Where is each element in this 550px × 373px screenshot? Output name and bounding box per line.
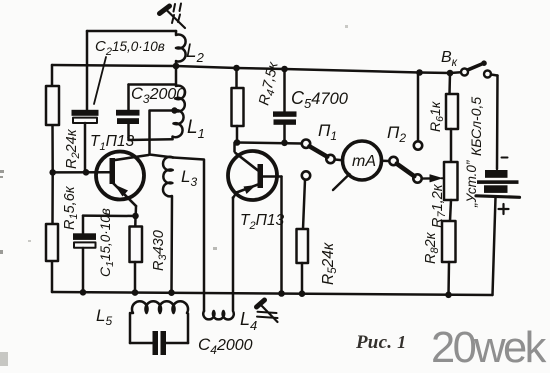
caption Ris. 1: [355, 332, 406, 353]
label P1: [318, 121, 337, 143]
L4 trimmer arrow: [257, 300, 278, 322]
transistor T2: [228, 143, 282, 200]
transistor T1: [96, 152, 149, 217]
inductor L5 and capacitor C4 tank: [130, 301, 188, 343]
label R5 24k: [320, 242, 339, 285]
label R6 1k: [427, 100, 446, 132]
capacitor C4: [153, 331, 167, 355]
svg-text:R224к: R224к: [64, 128, 82, 169]
label Ust.0: [464, 160, 479, 208]
wire P2 wiper arrow to R7: [422, 175, 444, 182]
wire C2-L2 loop top: [87, 31, 176, 110]
svg-text:R3430: R3430: [151, 230, 169, 271]
inductor L2: [176, 31, 186, 66]
svg-text:C54700: C54700: [291, 88, 349, 111]
label R8 2k: [423, 231, 441, 264]
meter mA: [333, 141, 382, 190]
wire T1 emitter line: [83, 214, 136, 217]
resistor R4: [232, 68, 244, 143]
node R2/R1 junction: [49, 169, 56, 176]
inductor L3: [163, 157, 173, 293]
battery KBS-0,5: [476, 76, 520, 296]
capacitor C3: [116, 110, 140, 124]
label L4: [240, 309, 257, 333]
switch P1: [302, 140, 343, 164]
switch P1 alternate terminal / R5 top: [302, 171, 310, 179]
wire bottom rail: [52, 292, 493, 295]
wire C2 bottom lead: [84, 123, 87, 172]
svg-text:„Уст.0”: „Уст.0”: [464, 160, 479, 208]
resistor R3: [130, 216, 143, 293]
label L3: [181, 167, 197, 189]
svg-text:20wek: 20wek: [431, 324, 547, 372]
node L2 on top rail: [173, 63, 180, 70]
antenna trimmer arrow: [160, 4, 186, 29]
label mA: [352, 153, 376, 170]
label C2 15,0x10v: [95, 38, 165, 58]
wire mid rail R4/C5/P1: [237, 143, 302, 144]
node R4 top: [233, 65, 240, 72]
resistor R7 potentiometer: [444, 162, 458, 221]
node R6 top: [447, 70, 454, 77]
wire T2 collector to bottom rail: [280, 177, 283, 294]
node C5 bottom: [281, 140, 288, 147]
scan artifacts: [0, 25, 348, 366]
resistor R5: [297, 180, 309, 294]
svg-text:R524к: R524к: [320, 242, 339, 285]
label R4 7,5k: [256, 60, 284, 108]
resistor R1: [46, 224, 58, 261]
watermark 20wek: [431, 324, 547, 372]
capacitor C5: [273, 69, 297, 143]
node T2 collector bottom: [278, 290, 285, 297]
svg-text:R82к: R82к: [423, 231, 441, 264]
wire top rail: [52, 65, 461, 73]
node C1 bottom: [80, 289, 87, 296]
label C4 2000: [198, 335, 253, 357]
node R8 bottom: [445, 292, 452, 299]
node P2 top: [416, 69, 423, 76]
label C5 4700: [291, 88, 349, 111]
wire L1 tap loop to L3: [150, 111, 175, 158]
svg-text:тА: тА: [352, 153, 376, 170]
label R1 5,6k: [62, 185, 80, 230]
label KBSl-0,5: [468, 97, 484, 156]
label L1: [187, 117, 205, 141]
node R4 bottom: [234, 139, 241, 146]
wire T1 base line: [53, 171, 110, 174]
svg-text:КБСл-0,5: КБСл-0,5: [468, 97, 484, 156]
svg-text:Рис. 1: Рис. 1: [355, 332, 406, 353]
wire C3 top / L1 top horizontal: [129, 85, 177, 111]
label R2 24k: [64, 128, 82, 169]
node R3 bottom: [132, 289, 139, 296]
leader line C2 label: [94, 57, 106, 104]
node R5 bottom: [299, 290, 306, 297]
label R7 1,2k: [430, 183, 448, 228]
label R3 430: [151, 230, 169, 271]
label C3 2000: [131, 85, 185, 106]
inductor L1 with tap: [173, 85, 186, 140]
svg-text:R15,6к: R15,6к: [62, 185, 80, 230]
label Vk: [441, 49, 458, 69]
node T1 emitter junction: [132, 213, 139, 220]
wire left vertical branch: [51, 65, 54, 292]
label T1 P13: [90, 133, 134, 153]
resistor R6: [446, 73, 458, 162]
label T2 P13: [240, 212, 284, 232]
switch Vk: [461, 60, 498, 77]
node C2 bottom / base: [83, 169, 90, 176]
label L5: [96, 306, 112, 328]
label L2: [186, 41, 205, 65]
capacitor C2 (electrolytic): [72, 110, 99, 123]
resistor R8: [442, 221, 456, 295]
inductor L4: [203, 198, 234, 320]
svg-text:C42000: C42000: [198, 335, 253, 357]
switch P2: [382, 73, 423, 183]
wire L1 top lead: [175, 66, 178, 85]
label C1 15,0x10v: [97, 208, 116, 277]
label P2: [387, 123, 406, 145]
svg-text:C32000: C32000: [131, 85, 185, 106]
node L3 bottom: [168, 289, 175, 296]
wire L3 top to L4 left leg: [173, 158, 204, 312]
wire C3 bottom lead: [129, 124, 173, 140]
node C5 top: [281, 66, 288, 73]
node L1 tap: [171, 107, 177, 113]
capacitor C1 (electrolytic): [73, 216, 96, 293]
resistor R2: [46, 86, 59, 125]
